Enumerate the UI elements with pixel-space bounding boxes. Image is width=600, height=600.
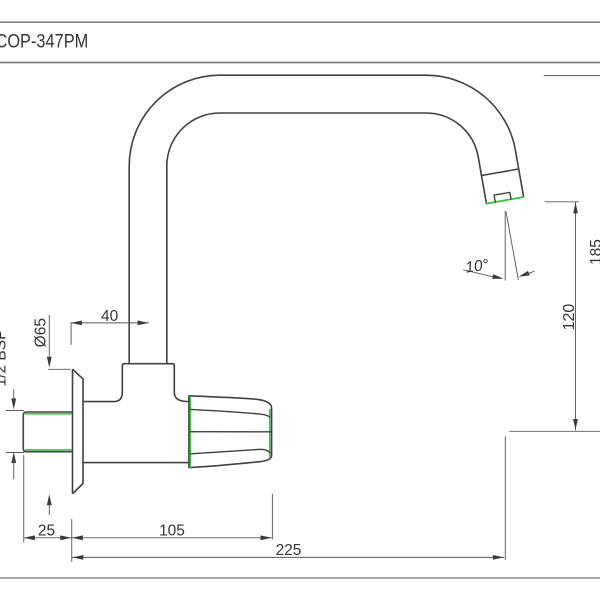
- dim 25+105: shared dimension line: [24, 537, 272, 539]
- dim 40: left arrow: [71, 321, 82, 326]
- angle 10deg: slanted spout axis line: [506, 212, 518, 279]
- svg-text:10°: 10°: [464, 256, 490, 276]
- ext line knob right face: [271, 494, 273, 539]
- dim 1/2 BSP: bottom extension tick: [6, 452, 24, 454]
- dim 120: bottom arrow (down): [573, 419, 578, 430]
- dim 105: right arrow: [261, 535, 272, 540]
- svg-text:Ø65: Ø65: [33, 318, 50, 347]
- dim 1/2 BSP: lower leader line: [13, 463, 15, 479]
- body neck and top outline: [83, 364, 188, 402]
- spout outer contour (vertical pipe left edge, upper bend, top run, right bend, tip right edge): [129, 75, 523, 364]
- angle 10deg: leader line: [464, 270, 496, 278]
- body bottom line: [83, 462, 188, 464]
- knob outline: [189, 396, 272, 468]
- svg-text:40: 40: [101, 308, 119, 325]
- ext line pipe top level (185 dim): [544, 75, 600, 77]
- inlet thread crest line bottom (green): [26, 449, 72, 451]
- dim 120: dimension line: [575, 202, 577, 430]
- inlet thread outline: [23, 412, 71, 452]
- wall flange: [73, 370, 84, 494]
- svg-text:COP-347PM: COP-347PM: [0, 30, 88, 52]
- spout inner contour (vertical pipe right edge, inner bend, inner top run, inner right bend, tip left edge): [167, 113, 487, 364]
- knob left edge highlight (green): [189, 396, 191, 467]
- dim Ø65: lower leader line: [48, 505, 50, 515]
- angle 10deg: leader arrow: [492, 274, 503, 279]
- knob rib top: [191, 409, 270, 417]
- dim Ø65: upper arrow (down): [47, 357, 52, 368]
- dim 225: left arrow: [72, 555, 83, 560]
- angle 10deg: vertical reference line: [504, 211, 506, 280]
- svg-text:1/2 BSP: 1/2 BSP: [0, 330, 10, 387]
- ext line 225 right end: [504, 437, 506, 560]
- knob right face highlight (green): [269, 410, 271, 458]
- svg-text:25: 25: [38, 522, 55, 539]
- inlet thread crest line top (green): [26, 413, 72, 415]
- ext line wall face lower: [71, 520, 73, 562]
- knob rib bottom: [191, 449, 270, 453]
- angle 10deg: right tail line: [527, 271, 535, 274]
- spout tip mouth edge (green): [486, 197, 523, 204]
- title block top border line: [0, 21, 600, 23]
- dim 1/2 BSP: upper arrow (down): [11, 399, 16, 410]
- dim 25: left arrow: [24, 535, 35, 540]
- dim 225: dimension line: [72, 556, 504, 558]
- knob rib middle: [191, 431, 271, 433]
- dim 40: right arrow: [138, 321, 149, 326]
- dim Ø65: lower arrow (up): [47, 494, 52, 505]
- svg-text:105: 105: [159, 522, 185, 539]
- dim Ø65: upper leader line: [48, 316, 50, 359]
- title block bottom border line: [0, 62, 600, 64]
- dim 105: left arrow: [72, 535, 83, 540]
- dim 1/2 BSP: upper leader line: [13, 390, 15, 400]
- dim 120: top arrow (up): [573, 202, 578, 213]
- dim 25: right arrow: [60, 535, 71, 540]
- svg-text:225: 225: [276, 542, 302, 559]
- dim Ø65: flange top extension tick: [49, 368, 71, 370]
- svg-text:185: 185: [588, 239, 600, 265]
- angle 10deg: right arrow: [519, 271, 530, 277]
- aerator insert rectangle: [494, 192, 511, 202]
- dim 1/2 BSP: lower arrow (up): [11, 452, 16, 463]
- svg-text:120: 120: [561, 304, 578, 331]
- ext line inlet left edge: [23, 456, 25, 543]
- ext line mounting level (bottom of 120/185): [510, 430, 600, 432]
- dim 1/2 BSP: top extension tick: [6, 410, 24, 412]
- drawing bottom border line: [0, 577, 600, 579]
- dim 40: wall face extension line: [70, 323, 72, 345]
- dim 225: right arrow: [493, 555, 504, 560]
- spout aerator joint line: [482, 169, 519, 176]
- dim 40: dimension line: [71, 322, 149, 324]
- ext line spout mouth level: [545, 201, 579, 203]
